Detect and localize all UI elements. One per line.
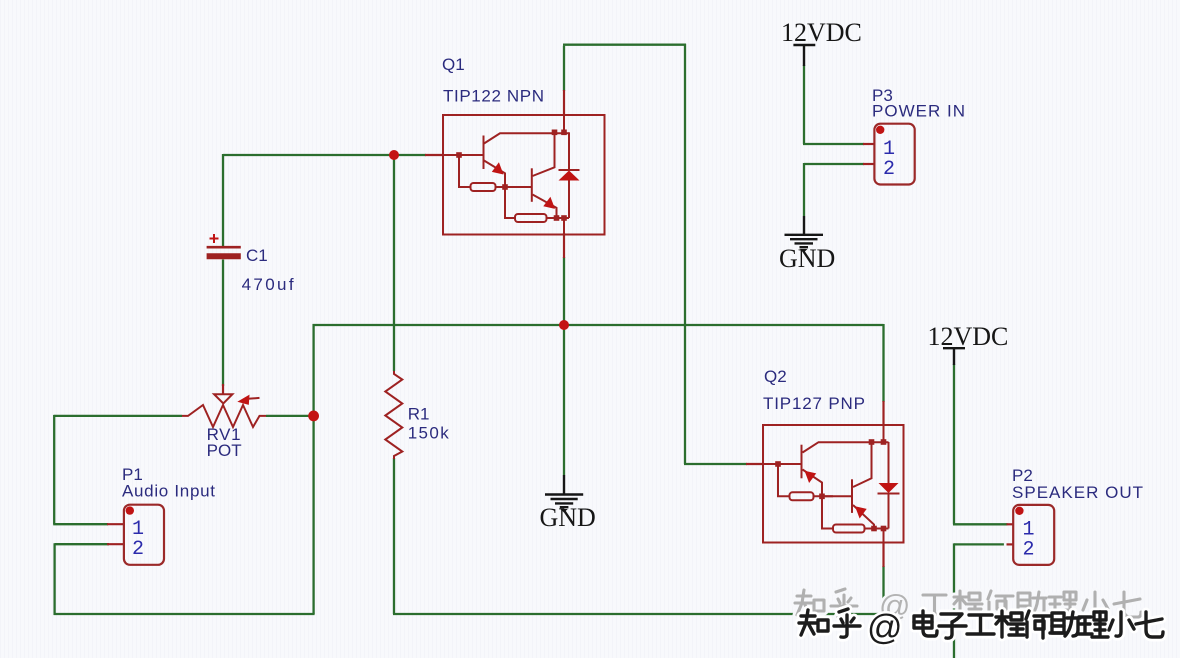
wire P2 pin2 drop to edge bbox=[953, 543, 955, 658]
ground symbol GND P3 bbox=[785, 216, 824, 247]
svg-text:Audio Input: Audio Input bbox=[122, 482, 215, 501]
Q1 junction squares bbox=[456, 130, 567, 221]
junction dot mid rail GND bbox=[559, 320, 569, 330]
wire 12VDC2 drop bbox=[953, 364, 955, 524]
wire P3 pin2 to GND bbox=[803, 163, 805, 216]
wire RV1 right terminal to junction bbox=[266, 415, 314, 417]
wire junction down to lower rail left bbox=[312, 416, 314, 614]
watermark gray layer bbox=[795, 589, 1141, 618]
wire Q1 emitter to GND bbox=[563, 257, 565, 475]
P2 pin2 stub bbox=[1007, 543, 1015, 545]
svg-text:POWER IN: POWER IN bbox=[872, 102, 965, 121]
svg-text:R1: R1 bbox=[408, 405, 430, 424]
svg-text:SPEAKER OUT: SPEAKER OUT bbox=[1012, 483, 1143, 502]
Q2 emitter arrow 1 bbox=[805, 471, 817, 483]
Q2 diode triangle bbox=[879, 483, 899, 493]
wire P1 pin2 drop bbox=[53, 543, 55, 615]
wire 12VDC to P3 pin1 bbox=[803, 65, 805, 144]
wire Q2 top stub bbox=[882, 324, 884, 402]
wire top rail bbox=[563, 44, 686, 46]
Q1 emitter pin stub bbox=[563, 233, 565, 258]
svg-text:470uf: 470uf bbox=[242, 275, 294, 294]
svg-text:POT: POT bbox=[207, 441, 242, 460]
svg-text:TIP127 PNP: TIP127 PNP bbox=[763, 394, 865, 413]
watermark black layer bbox=[799, 609, 1163, 638]
svg-text:2: 2 bbox=[132, 538, 144, 561]
Q1 diode triangle bbox=[559, 171, 580, 181]
capacitor C1 bbox=[207, 234, 241, 256]
svg-text:GND: GND bbox=[540, 503, 596, 532]
watermark black layer halo bbox=[799, 609, 1163, 638]
P1 pin2 stub bbox=[107, 543, 124, 545]
wire P2 pin1 bbox=[953, 523, 1008, 525]
Q1 emitter arrow 1 bbox=[492, 162, 504, 174]
wire to Q2 base bbox=[684, 463, 747, 465]
svg-text:12VDC: 12VDC bbox=[928, 322, 1009, 351]
Q1 emitter arrow 2 bbox=[543, 197, 555, 209]
connector P2 bbox=[1013, 505, 1054, 565]
wire P2 pin2 bbox=[954, 543, 1004, 545]
watermark gray layer halo bbox=[795, 589, 1141, 618]
svg-text:12VDC: 12VDC bbox=[781, 18, 862, 47]
svg-text:Q1: Q1 bbox=[442, 55, 465, 74]
svg-text:@: @ bbox=[867, 608, 903, 647]
wire right drop to Q2 base bbox=[684, 44, 686, 464]
wire C1 top drop bbox=[222, 154, 224, 246]
svg-text:GND: GND bbox=[779, 244, 835, 273]
potentiometer RV1 zigzag bbox=[182, 405, 266, 427]
P1 pin1 stub bbox=[107, 523, 124, 525]
wire lower rail right bbox=[393, 613, 884, 615]
wire junction up to mid rail bbox=[312, 324, 314, 417]
P2 pin1 stub bbox=[1007, 523, 1015, 525]
Q1 collector pin stub bbox=[563, 90, 565, 116]
wire C1 bottom to RV1 wiper bbox=[222, 260, 224, 387]
wire mid rail y=325 bbox=[313, 324, 884, 326]
transistor Q1 TIP122 body bbox=[443, 115, 605, 235]
wire P1 pin2 bbox=[55, 543, 109, 545]
Q2 bottom pin stub bbox=[882, 542, 884, 567]
Q2 base pin stub bbox=[746, 463, 764, 465]
wire lower rail left bbox=[54, 613, 315, 615]
Q2 internal resistor a bbox=[790, 492, 814, 500]
wire Q2 bottom to lower rail bbox=[882, 566, 884, 615]
P3 pin1 stub bbox=[863, 143, 875, 145]
svg-text:C1: C1 bbox=[246, 246, 268, 265]
Q2 emitter arrow 2 bbox=[855, 506, 867, 518]
ground symbol GND mid bbox=[545, 475, 583, 507]
wire P3 pin1 bbox=[803, 143, 864, 145]
wire base junction down to R1 bbox=[393, 155, 395, 371]
transistor Q2 TIP127 body bbox=[763, 425, 904, 543]
Q2 top pin stub bbox=[882, 401, 884, 426]
Q1 internal resistor b bbox=[515, 214, 547, 222]
wire P3 pin2 bbox=[804, 163, 864, 165]
Q1 internal resistor a bbox=[471, 183, 496, 191]
svg-text:2: 2 bbox=[883, 158, 895, 181]
Q2 junction squares bbox=[775, 439, 886, 531]
Q1 base pin stub bbox=[425, 154, 443, 156]
wire P1 pin1 bbox=[53, 523, 108, 525]
resistor R1 zigzag bbox=[385, 371, 402, 459]
svg-text:TIP122 NPN: TIP122 NPN bbox=[443, 87, 544, 106]
RV1 wiper triangle bbox=[214, 394, 232, 403]
RV1 adjust arrow bbox=[248, 397, 260, 400]
svg-text:150k: 150k bbox=[408, 424, 450, 443]
connector P3 bbox=[874, 124, 914, 185]
wire Q1 collector riser bbox=[563, 46, 565, 91]
wire P1 pin1 riser bbox=[53, 415, 55, 524]
junction dot base/R1 bbox=[389, 150, 399, 160]
svg-text:2: 2 bbox=[1023, 538, 1035, 561]
P3 pin2 stub bbox=[863, 163, 875, 165]
wire RV1 left terminal bbox=[54, 415, 182, 417]
power symbol 12VDC top bbox=[793, 45, 815, 66]
junction dot RV1 bbox=[308, 411, 319, 422]
Q2 internal resistor b bbox=[833, 525, 865, 533]
connector P1 bbox=[124, 505, 164, 565]
power symbol 12VDC right bbox=[943, 348, 965, 365]
svg-text:Q2: Q2 bbox=[764, 367, 787, 386]
RV1 wiper pin stub bbox=[222, 384, 224, 394]
wire R1 bottom to lower rail bbox=[393, 458, 395, 614]
wire C1 top to Q1 base bbox=[223, 154, 426, 156]
